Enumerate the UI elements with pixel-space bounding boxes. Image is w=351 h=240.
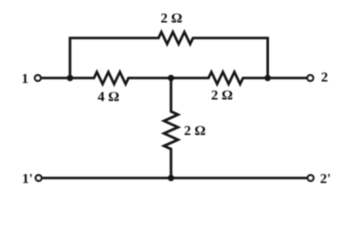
svg-text:2 Ω: 2 Ω <box>211 89 233 104</box>
svg-text:1: 1 <box>22 72 29 87</box>
svg-text:2 Ω: 2 Ω <box>161 12 183 27</box>
svg-text:4 Ω: 4 Ω <box>98 90 120 105</box>
svg-text:2: 2 <box>321 71 328 86</box>
svg-text:2 Ω: 2 Ω <box>184 124 206 139</box>
svg-text:1': 1' <box>22 172 33 187</box>
svg-text:2': 2' <box>320 172 331 187</box>
